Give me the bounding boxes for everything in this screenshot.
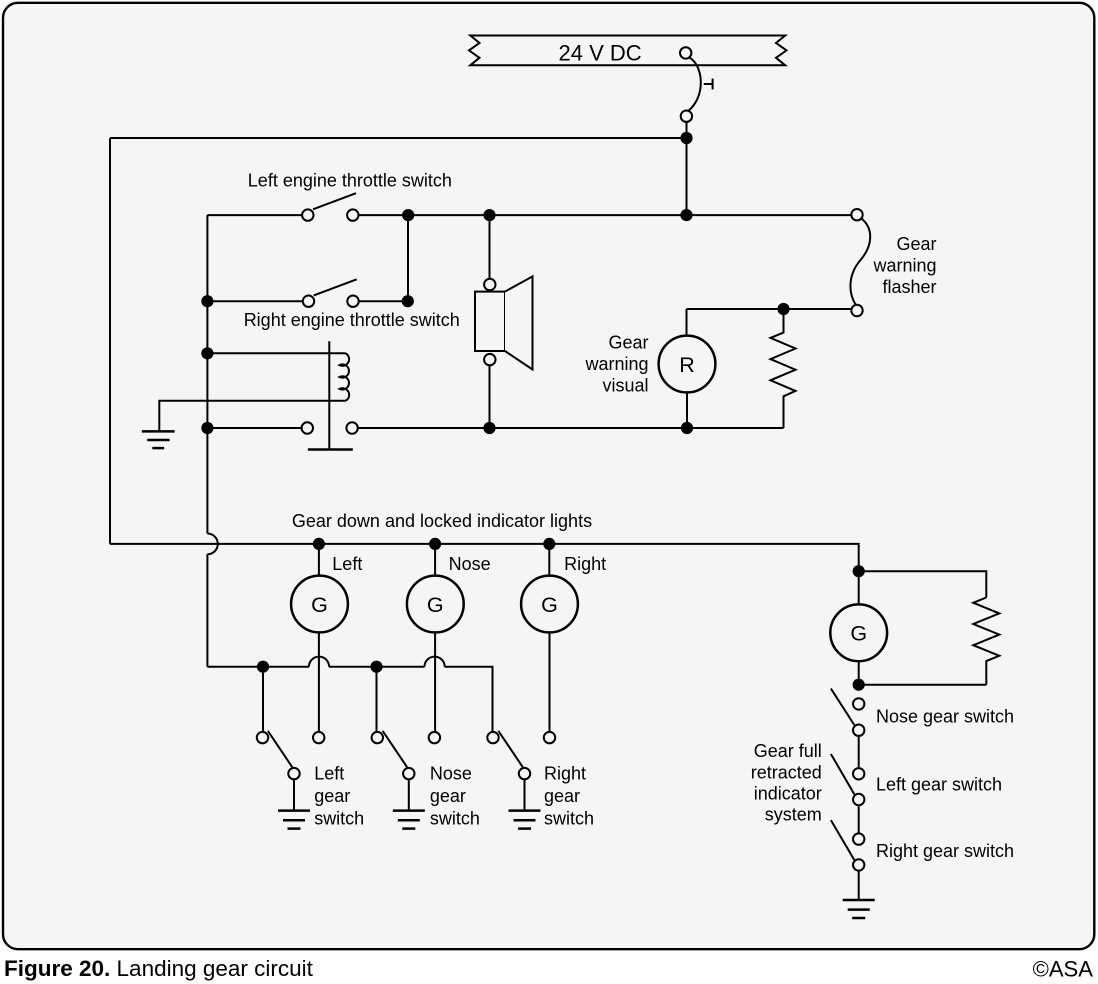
switch right engine throttle	[303, 279, 359, 307]
wire right lamp parallel bottom	[859, 684, 987, 686]
wire throttle line 2	[207, 300, 407, 302]
svg-text:G: G	[427, 593, 444, 617]
bus bar 24 V DC banner	[469, 36, 787, 66]
svg-text:Left engine throttle switch: Left engine throttle switch	[248, 171, 452, 191]
node bus2 left	[257, 661, 269, 673]
node bus1 left lamp	[313, 538, 325, 550]
label Left gear switch	[314, 764, 364, 829]
node bus1 nose lamp	[429, 538, 441, 550]
lamp R gear warning visual	[659, 336, 716, 393]
label Right	[564, 554, 606, 574]
switch right gear retract	[831, 820, 865, 871]
lamp G retract	[830, 604, 887, 661]
svg-text:Right: Right	[564, 554, 606, 574]
node bus2 nose	[370, 661, 382, 673]
wire top horizontal from left riser to switch	[110, 137, 687, 139]
node right circuit top	[853, 565, 865, 577]
node contact line left	[201, 422, 213, 434]
wire right lamp top lead	[548, 544, 550, 576]
resistor R2 retract	[973, 598, 999, 685]
label Left engine throttle switch	[248, 171, 452, 191]
wire left lamp bottom lead	[318, 632, 320, 732]
relay contacts	[302, 422, 358, 433]
node resistor top	[777, 303, 789, 315]
battery master switch	[680, 47, 713, 122]
switch nose gear retract	[831, 689, 865, 736]
svg-text:Gear down and locked indicator: Gear down and locked indicator lights	[292, 511, 592, 531]
wire flasher top feed	[687, 308, 852, 310]
wire hop over bus1	[207, 534, 217, 555]
wire right lamp parallel top	[859, 571, 987, 597]
wire throttle line 1	[207, 214, 851, 216]
node throttle2 left	[201, 295, 213, 307]
label Gear full retracted indicator system	[751, 741, 822, 825]
lamp G right	[521, 576, 578, 633]
label Nose	[449, 554, 491, 574]
svg-text:Figure 20. Landing gear circui: Figure 20. Landing gear circuit	[4, 956, 314, 981]
wire left lamp top lead	[318, 544, 320, 576]
wire R lamp top lead	[686, 309, 688, 336]
svg-text:G: G	[850, 622, 867, 646]
wire left switch drop	[262, 667, 264, 732]
wire bus2 hop left	[309, 657, 329, 667]
ground relay	[142, 431, 175, 448]
wire retract ground lead	[858, 870, 860, 900]
node bus1 right lamp	[543, 538, 555, 550]
svg-text:R: R	[679, 353, 695, 377]
flasher gear warning	[850, 209, 870, 316]
switch left gear retract	[831, 754, 865, 805]
wire between retract switches 2-3	[858, 805, 860, 834]
node main junction below switch	[680, 132, 692, 144]
ground right gear switch	[509, 811, 541, 829]
node throttle2 right	[402, 295, 414, 307]
wire bus2 switch feed	[207, 667, 492, 732]
caption Figure 20	[4, 956, 314, 981]
wire left outer riser	[109, 138, 111, 544]
node throttle line dot main	[680, 209, 692, 221]
label Gear warning visual	[584, 333, 648, 396]
relay coil wire top	[207, 352, 345, 354]
wire nose lamp bottom lead	[434, 632, 436, 732]
label Left gear switch retract	[876, 774, 1002, 794]
ground left gear switch	[278, 811, 310, 829]
relay coil wire bottom	[159, 401, 345, 432]
node coil top junction	[201, 347, 213, 359]
wire between retract switches 1-2	[858, 736, 860, 769]
resistor R1 gear warning	[771, 309, 796, 428]
switch left gear	[257, 731, 325, 811]
label Right gear switch	[544, 764, 594, 829]
label Right engine throttle switch	[244, 310, 460, 330]
wire right lamp bottom lead	[549, 632, 551, 732]
svg-text:Left: Left	[332, 554, 362, 574]
node throttle line dot A	[402, 209, 414, 221]
wire indicator bus1	[110, 544, 859, 571]
wire between throttle lines	[407, 215, 409, 301]
svg-text:Nose gear switch: Nose gear switch	[876, 706, 1014, 726]
wire G lamp bottom stub	[858, 661, 860, 685]
switch right gear	[487, 731, 555, 811]
node contact line lamp	[681, 422, 693, 434]
relay coil K1	[340, 353, 350, 401]
wire main vertical from switch to throttle line	[686, 122, 688, 215]
node contact line speaker	[483, 422, 495, 434]
relay armature bar	[308, 448, 353, 451]
label Nose gear switch	[430, 764, 480, 829]
label Gear warning flasher	[872, 234, 936, 297]
wire R lamp bottom lead	[686, 392, 688, 428]
wire bus2 hop nose	[425, 657, 445, 667]
lamp G left	[291, 576, 348, 633]
lamp G nose	[407, 576, 464, 633]
speaker horn	[475, 276, 533, 369]
svg-text:G: G	[311, 593, 328, 617]
wire right G lamp top lead	[858, 571, 860, 604]
svg-text:©ASA: ©ASA	[1033, 957, 1094, 982]
node throttle line dot speaker	[483, 209, 495, 221]
switch left engine throttle	[302, 193, 358, 221]
label Nose gear switch retract	[876, 706, 1014, 726]
svg-text:Left gear switch: Left gear switch	[876, 774, 1002, 794]
relay core line	[328, 341, 330, 449]
ground nose gear switch	[393, 811, 425, 829]
svg-text:24 V DC: 24 V DC	[559, 41, 642, 66]
label Gear down and locked indicator lights	[292, 511, 592, 531]
label Right gear switch retract	[876, 841, 1014, 861]
node right circuit bottom	[853, 679, 865, 691]
label copyright ASA	[1033, 957, 1094, 982]
wire nose lamp top lead	[434, 544, 436, 576]
label Left	[332, 554, 362, 574]
svg-text:Right engine throttle switch: Right engine throttle switch	[244, 310, 460, 330]
wire speaker bottom lead	[489, 365, 491, 428]
label 24 V DC	[559, 41, 642, 66]
wire left riser inner	[206, 215, 208, 667]
svg-text:Right gear switch: Right gear switch	[876, 841, 1014, 861]
svg-text:Nose: Nose	[449, 554, 491, 574]
switch nose gear	[372, 731, 441, 811]
ground retract system	[843, 900, 875, 918]
wire speaker top lead	[489, 215, 491, 279]
wire contact line	[207, 427, 783, 429]
wire nose switch drop	[376, 667, 378, 732]
svg-text:G: G	[541, 593, 558, 617]
